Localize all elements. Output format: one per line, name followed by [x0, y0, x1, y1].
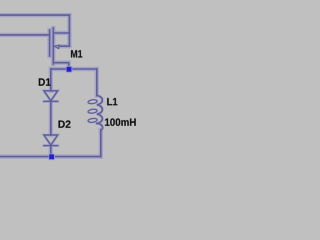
- label M1: [71, 50, 82, 57]
- wire D2 to bottom rail halo: [49, 146, 53, 157]
- transistor M1 gate bar halo: [47, 30, 51, 56]
- wire D1 to D2: [50, 101, 52, 135]
- wire node row: [51, 68, 97, 70]
- transistor M1 drain stub: [53, 32, 69, 34]
- label D1: [39, 78, 51, 85]
- inductor L1 return petal 3: [88, 118, 98, 123]
- wire gate lead: [0, 34, 50, 36]
- transistor M1 gate bar: [49, 30, 51, 56]
- wire top supply rail halo: [0, 13, 69, 17]
- wire L1 bottom lead: [100, 130, 102, 157]
- wire right branch down to L1: [96, 69, 98, 96]
- wire top supply rail: [0, 14, 69, 16]
- junction bottom rail: [49, 154, 54, 159]
- transistor M1 body arrow stub: [60, 45, 69, 47]
- wire D1 to D2 halo: [49, 101, 53, 135]
- wire left branch halo: [49, 69, 53, 91]
- inductor L1 return petal 1: [88, 99, 98, 104]
- transistor M1 source stub: [53, 63, 68, 69]
- label L1: [107, 98, 117, 105]
- inductor L1 exit arc: [97, 123, 103, 130]
- wire node row halo: [51, 67, 97, 71]
- wire drain vertical: [68, 15, 70, 46]
- transistor M1 source stub halo: [53, 63, 68, 69]
- inductor L1 return petal 2: [88, 109, 98, 114]
- diode D2 triangle halo: [44, 135, 58, 145]
- diode D1 triangle: [44, 91, 58, 101]
- inductor L1 coil bumps: [97, 96, 103, 124]
- diode D2 cathode bar halo: [44, 144, 58, 147]
- junction bottom halo: [49, 154, 55, 160]
- junction node halo: [66, 66, 72, 72]
- label D2: [59, 120, 71, 127]
- wire bottom rail halo: [0, 154, 101, 158]
- wire right branch halo: [95, 69, 99, 96]
- diode D1 triangle halo: [44, 91, 58, 101]
- transistor M1 arrowhead halo: [54, 45, 59, 49]
- transistor M1 drain stub halo: [53, 31, 69, 35]
- transistor M1 channel bar halo: [51, 28, 55, 64]
- inductor L1 petal 1 halo: [88, 99, 98, 104]
- diode D1 cathode bar: [44, 100, 58, 102]
- diode D2 triangle: [44, 135, 58, 145]
- wire bottom rail: [0, 156, 101, 158]
- inductor L1 petal 2 halo: [88, 109, 98, 114]
- inductor L1 coil bumps halo: [97, 96, 103, 124]
- label 100mH: [105, 118, 136, 126]
- wire drain vertical halo: [67, 15, 71, 46]
- wire gate lead halo: [0, 33, 50, 37]
- transistor M1 channel bar: [52, 28, 54, 64]
- inductor L1 petal 3 halo: [88, 118, 98, 123]
- transistor M1 body arrow stub halo: [60, 44, 69, 48]
- diode D2 cathode bar: [44, 145, 58, 147]
- diode D1 cathode bar halo: [44, 100, 58, 103]
- wire L1 bottom lead halo: [99, 130, 103, 157]
- wire left branch down to D1: [50, 69, 52, 91]
- transistor M1 arrowhead: [54, 45, 59, 49]
- wire D2 to bottom rail: [50, 146, 52, 157]
- junction node source/diodes/inductor: [67, 67, 72, 72]
- inductor L1 exit arc halo: [97, 123, 103, 130]
- junction halos: [49, 66, 73, 160]
